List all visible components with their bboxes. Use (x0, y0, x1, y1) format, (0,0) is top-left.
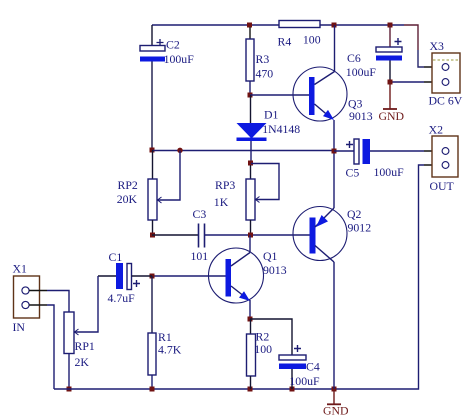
node junction RP1/ground rail (67, 387, 72, 392)
ground GND bottom (323, 389, 349, 418)
wire X3 pin2 (390, 81, 424, 83)
svg-text:20K: 20K (117, 192, 138, 206)
wire branch to C4 (250, 319, 292, 355)
wire node to D1 anode (250, 95, 252, 123)
capacitor C2 (140, 25, 194, 66)
wire R3 bottom lead (249, 81, 251, 95)
svg-text:GND: GND (323, 404, 349, 418)
svg-text:100uF: 100uF (164, 52, 195, 66)
svg-text:100: 100 (303, 33, 321, 47)
wire mid column to R1 (151, 276, 153, 333)
capacitor C1 (98, 250, 152, 305)
potentiometer RP2 (117, 150, 180, 220)
svg-text:100: 100 (254, 342, 272, 356)
svg-text:C4: C4 (306, 360, 320, 374)
svg-text:2K: 2K (75, 355, 90, 369)
wire rail y235 right of C3 (205, 234, 310, 236)
wire to X3 pin1 (418, 50, 424, 67)
svg-text:9012: 9012 (348, 221, 372, 235)
wire RP3 bottom lead (250, 220, 252, 235)
wire D1 cathode down (250, 141, 252, 163)
resistor R4 (278, 21, 321, 49)
svg-text:100uF: 100uF (289, 374, 320, 388)
svg-text:X2: X2 (429, 123, 444, 137)
svg-text:470: 470 (256, 67, 274, 81)
wire RP1 bottom lead (68, 354, 70, 390)
wire Q2 emitter up (333, 151, 335, 208)
resistor R2 (247, 319, 273, 389)
connector X3 (429, 39, 463, 108)
wire top rail left (152, 24, 279, 26)
svg-text:4.7K: 4.7K (158, 343, 182, 357)
node junction R1/rail (150, 387, 155, 392)
wire Q1 emitter down (249, 300, 251, 319)
node junction RP3/Q1 collector/Q2 base (248, 233, 253, 238)
node junction C5/Q3-Q2 emitters (332, 149, 337, 154)
svg-text:X1: X1 (13, 262, 28, 276)
capacitor C6 (346, 25, 402, 82)
connector X2 (429, 123, 458, 194)
svg-text:RP3: RP3 (215, 178, 235, 192)
svg-text:R3: R3 (256, 52, 270, 66)
svg-text:100uF: 100uF (374, 165, 405, 179)
node junction Q3 collector/top rail (332, 23, 337, 28)
node junction RP2/low rail (150, 233, 155, 238)
potentiometer RP1 (64, 276, 98, 369)
svg-text:9013: 9013 (263, 263, 287, 277)
wire RP2 bottom lead (152, 220, 154, 235)
ground GND top (379, 82, 405, 123)
svg-text:100uF: 100uF (346, 65, 377, 79)
connector X1 (13, 262, 48, 335)
wire bottom ground rail (54, 165, 424, 389)
transistor Q2 9012 (293, 207, 371, 263)
wire X1 pin2 to ground rail (47, 305, 54, 389)
capacitor C4 (279, 345, 320, 389)
wire R1 bottom lead (151, 375, 153, 389)
svg-text:C2: C2 (166, 38, 180, 52)
wire C2 bottom lead (151, 62, 153, 151)
resistor R1 (148, 330, 182, 375)
wire top rail right (maroon) (404, 25, 418, 50)
svg-text:C1: C1 (109, 250, 123, 264)
wire X1 pin1 to RP1 (47, 291, 69, 313)
svg-text:C5: C5 (346, 166, 360, 180)
node junction C4/rail (290, 387, 295, 392)
wire mid rail y150 (152, 150, 334, 152)
node junction C6/X3 pin2/GND (388, 80, 393, 85)
node junction RP2 wiper/mid rail (177, 148, 182, 153)
transistor Q1 9013 (209, 248, 287, 303)
node junction C2/mid rail (150, 148, 155, 153)
potentiometer RP3 (214, 164, 279, 221)
svg-text:101: 101 (191, 249, 209, 263)
svg-text:R4: R4 (278, 35, 292, 49)
svg-text:1N4148: 1N4148 (262, 122, 300, 136)
wire Q2 collector down (333, 262, 335, 389)
node junction R3/D1/Q3 base (248, 93, 253, 98)
wire Q3 collector up (334, 25, 336, 72)
svg-text:X3: X3 (430, 39, 445, 53)
resistor R3 (246, 39, 273, 81)
svg-text:1K: 1K (214, 195, 229, 209)
capacitor C5 (334, 139, 442, 180)
transistor Q3 9013 (293, 67, 373, 123)
wire Q1 collector up (249, 235, 251, 253)
node junction C6/top rail (388, 23, 393, 28)
svg-text:GND: GND (379, 109, 405, 123)
svg-text:Q1: Q1 (263, 249, 278, 263)
svg-text:RP2: RP2 (118, 178, 138, 192)
wire R3 top lead (249, 27, 251, 39)
svg-text:RP1: RP1 (75, 339, 95, 353)
node junction R2/rail (248, 387, 253, 392)
svg-text:C3: C3 (193, 207, 207, 221)
capacitor C3 (191, 207, 209, 263)
svg-text:DC 6V: DC 6V (429, 94, 463, 108)
svg-text:D1: D1 (264, 108, 279, 122)
wire Q3 emitter down (333, 120, 335, 151)
node junction C1/R1/Q1 base (150, 274, 155, 279)
wire Q3 base (250, 94, 309, 96)
wire top rail mid (320, 24, 404, 26)
node junction R3/top rail (247, 23, 252, 28)
wire rail y235 left of C3 (152, 234, 198, 236)
node junction Q1 emitter/R2/C4 (248, 317, 253, 322)
node junction Q2 collector/rail (332, 387, 337, 392)
wire Q1 base rail (152, 275, 226, 277)
svg-text:9013: 9013 (349, 109, 373, 123)
svg-text:4.7uF: 4.7uF (108, 291, 136, 305)
diode D1 1N4148 (237, 108, 301, 142)
node junction D1/RP3 (248, 161, 253, 166)
svg-text:OUT: OUT (430, 179, 455, 193)
svg-text:C6: C6 (347, 51, 361, 65)
svg-text:Q2: Q2 (347, 207, 362, 221)
svg-text:IN: IN (13, 320, 26, 334)
